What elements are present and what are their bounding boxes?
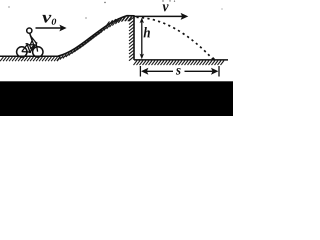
v arrowhead [181,13,189,20]
v0 label: v [42,15,51,23]
ramp hatching [57,17,132,61]
s dimension right tick [218,66,220,77]
v label [163,4,169,11]
left ground hatching [0,57,60,61]
lower ground hatching [134,61,225,66]
lower ground line [134,59,228,61]
v0 label: subscript 0 [52,19,57,25]
v0 arrowhead [59,25,66,32]
trajectory landing dash [213,58,215,60]
s arrow shaft [147,70,212,72]
cyclist: rear wheel [17,47,27,57]
black bar at bottom [0,81,233,116]
cliff vertical edge [133,15,135,60]
h bottom arrowhead [140,54,144,60]
s right arrowhead [211,68,218,75]
cyclist: crank [29,51,31,53]
left ground line [0,55,60,57]
v0 arrow shaft [36,27,62,29]
s label [176,68,181,75]
h dimension arrow [141,21,143,56]
h top arrowhead [140,18,144,24]
cyclist: torso [30,33,33,41]
ramp underside second line [59,32,102,58]
ramp curve [58,16,134,57]
cliff hatching [129,17,134,61]
cyclist: frame [22,42,38,52]
s dimension left tick [139,66,141,77]
noise specks [8,0,222,18]
cyclist: legs [30,41,34,50]
h label [144,27,150,37]
trajectory (dashed parabola) [137,17,216,62]
ramp top dense hatching [106,17,131,26]
cyclist: arm [30,36,36,44]
cyclist: front wheel [33,47,43,57]
cyclist: head [27,28,32,33]
v arrow shaft [134,15,182,17]
s left arrowhead [141,68,148,75]
